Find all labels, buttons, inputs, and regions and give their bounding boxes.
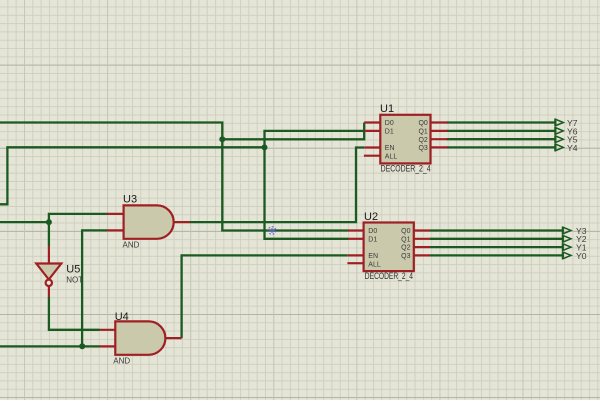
svg-text:EN: EN	[368, 253, 378, 260]
svg-text:ALL: ALL	[385, 153, 398, 160]
svg-text:D1: D1	[368, 236, 377, 243]
svg-text:Q2: Q2	[401, 245, 410, 252]
svg-text:Q2: Q2	[418, 137, 427, 144]
svg-text:U2: U2	[364, 211, 378, 223]
svg-text:ALL: ALL	[368, 261, 381, 268]
svg-text:NOT: NOT	[66, 276, 83, 285]
svg-text:Q0: Q0	[401, 228, 410, 235]
svg-text:U5: U5	[66, 264, 80, 276]
svg-text:Y4: Y4	[567, 143, 578, 153]
svg-text:Q1: Q1	[401, 236, 410, 243]
svg-text:Y0: Y0	[576, 251, 587, 261]
svg-text:EN: EN	[385, 145, 395, 152]
svg-text:U1: U1	[380, 103, 394, 115]
svg-text:Q3: Q3	[401, 253, 410, 260]
svg-text:D0: D0	[385, 120, 394, 127]
svg-text:DECODER_2_4: DECODER_2_4	[381, 163, 431, 173]
svg-text:D0: D0	[368, 228, 377, 235]
svg-text:U4: U4	[115, 311, 129, 323]
svg-text:D1: D1	[385, 129, 394, 136]
svg-text:U3: U3	[123, 194, 137, 206]
svg-text:AND: AND	[113, 356, 130, 365]
svg-text:Q3: Q3	[418, 145, 427, 152]
svg-text:Q1: Q1	[418, 129, 427, 136]
svg-text:Q0: Q0	[418, 120, 427, 127]
svg-text:DECODER_2_4: DECODER_2_4	[365, 271, 413, 281]
svg-text:AND: AND	[123, 241, 140, 250]
